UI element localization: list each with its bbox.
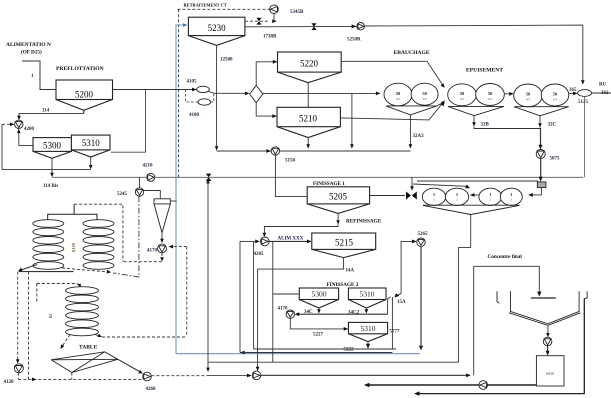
- cell bank ebauchage pair: [384, 83, 438, 106]
- svg-text:ALIM XXX: ALIM XXX: [278, 237, 304, 242]
- svg-text:4210: 4210: [143, 164, 154, 169]
- wire branch drop to finissage feed: [351, 93, 353, 146]
- svg-text:WS: WS: [396, 97, 401, 101]
- svg-text:5250R: 5250R: [347, 38, 361, 43]
- tank 5200: [56, 80, 113, 113]
- wire 5205 underflow to 4205: [264, 225, 338, 235]
- svg-text:5125: 5125: [578, 100, 589, 105]
- pump 5075: [536, 150, 545, 159]
- svg-text:6118: 6118: [71, 242, 76, 252]
- wire bottom black line: [240, 352, 392, 354]
- wire ALIM line into 5215: [269, 240, 309, 242]
- tank 5300 fin2: [299, 288, 338, 308]
- wire square recycle line: [417, 180, 538, 182]
- svg-text:5345R: 5345R: [290, 10, 304, 15]
- svg-text:(OF D15): (OF D15): [21, 49, 42, 56]
- wire dashed into 4120: [17, 272, 19, 362]
- splitter diamond: [250, 86, 263, 103]
- wire 5300 underflow: [51, 158, 53, 174]
- svg-text:50: 50: [422, 91, 427, 96]
- svg-text:WS: WS: [526, 98, 531, 102]
- wire dashed vertical x187: [186, 247, 188, 336]
- wire cells exit to 5125: [569, 92, 575, 94]
- pump 5250R: [357, 23, 365, 31]
- cell bank epuisement pair 1: [448, 84, 505, 106]
- wire 32C down to 5075: [540, 128, 542, 147]
- svg-text:5215: 5215: [335, 238, 354, 248]
- wire 6020 out left: [488, 384, 537, 386]
- wire 5220 underflow into 5210: [307, 83, 309, 108]
- wire 15A to 5265: [397, 241, 413, 296]
- sampler 4100: [198, 99, 211, 105]
- pump 6020 line: [479, 381, 488, 390]
- tank 5220: [278, 52, 342, 83]
- tank 5210: [277, 107, 340, 137]
- wire dashed header to x123: [74, 204, 123, 262]
- wire concentrate to thickener riser: [261, 374, 468, 376]
- wire 5220 overflow to ebauchage: [341, 61, 443, 85]
- wire 5310 drop: [365, 308, 367, 311]
- wire recycle into row from line B: [411, 177, 413, 188]
- wire cyclone underflow: [161, 233, 163, 241]
- svg-text:32B: 32B: [481, 123, 490, 128]
- wire 15A junction riser: [388, 297, 391, 314]
- sampler 4105: [197, 86, 210, 92]
- wire lower 5310 drop: [367, 342, 369, 345]
- spiral bank 3: [66, 287, 99, 336]
- wire spirals header: [48, 214, 97, 222]
- wire dashed enclosure left: [178, 9, 180, 177]
- wire line B into 5245: [139, 177, 141, 188]
- wire 32C drop: [539, 116, 541, 125]
- cyclone: [154, 199, 170, 233]
- cell bank finissage row: [422, 188, 522, 205]
- wire 5310 underflow: [90, 157, 92, 167]
- wire pump to 6020: [547, 346, 549, 353]
- wire 5265 discharge gray: [420, 246, 422, 345]
- svg-text:5777: 5777: [390, 330, 401, 335]
- svg-text:362: 362: [601, 91, 609, 96]
- wire dashed horizontal y262: [124, 261, 162, 263]
- trough ebauchage pair: [386, 103, 443, 115]
- trough epuisement pair 2: [514, 107, 569, 116]
- wire 5150 to 5205: [275, 155, 307, 197]
- trough epuisement pair 1: [448, 106, 504, 115]
- wire bottom return line: [208, 247, 458, 362]
- wire dashed y335: [102, 336, 187, 338]
- wire dashed enclosure top: [177, 8, 269, 10]
- wire feed into 5300: [272, 241, 274, 362]
- svg-text:32C: 32C: [548, 123, 557, 128]
- wire spiral1 underflow arrow: [21, 265, 37, 271]
- svg-text:WS: WS: [460, 97, 465, 101]
- svg-text:34C: 34C: [304, 310, 313, 315]
- svg-text:114: 114: [42, 109, 50, 114]
- svg-text:5300: 5300: [43, 141, 62, 151]
- wire drop from recycle into pair junction: [413, 184, 467, 186]
- svg-text:RETRAITEMENT CT: RETRAITEMENT CT: [184, 3, 227, 8]
- svg-text:4260: 4260: [146, 387, 157, 392]
- wire 5777 drop: [391, 297, 393, 349]
- wire 5205 underflow: [337, 213, 339, 222]
- pump 4210: [147, 173, 155, 181]
- svg-text:WS: WS: [488, 97, 493, 101]
- valve 1738R: [311, 23, 316, 30]
- wire dashed around 4100: [186, 90, 199, 103]
- svg-text:5310: 5310: [361, 324, 376, 333]
- svg-text:4100: 4100: [189, 113, 200, 118]
- svg-text:PREFLOTTATION: PREFLOTTATION: [56, 66, 104, 72]
- tank 5230: [188, 17, 245, 45]
- svg-text:4170: 4170: [278, 307, 289, 312]
- wire 32B drop: [473, 116, 475, 124]
- svg-text:50: 50: [488, 91, 493, 96]
- wire spiral2 to spiral3: [36, 284, 38, 303]
- wire dashdot from 5245 down: [113, 196, 139, 277]
- svg-text:5265: 5265: [418, 232, 429, 237]
- wire 32B collection: [474, 127, 540, 129]
- wire diamond to 5210: [256, 103, 274, 117]
- wire recycle into 4205 from left: [240, 240, 255, 242]
- pump 5345R: [270, 5, 279, 14]
- wire 5230 overflow main: [245, 25, 357, 27]
- svg-text:5245: 5245: [117, 192, 128, 197]
- svg-text:365: 365: [569, 88, 577, 93]
- wire 5205 overflow to cell row: [370, 195, 405, 197]
- wire feed inlet: [22, 61, 56, 90]
- pump 4170 fin2: [286, 310, 294, 318]
- svg-text:5220: 5220: [300, 59, 319, 69]
- svg-text:62: 62: [48, 313, 53, 318]
- wire square to finissage cells: [531, 188, 542, 195]
- svg-text:5210: 5210: [299, 114, 318, 124]
- svg-text:TABLE: TABLE: [79, 345, 98, 351]
- wire arrow between finissage pairs: [473, 194, 479, 196]
- spiral bank 1: [33, 220, 64, 270]
- valve finissage row inlet: [406, 192, 417, 200]
- thickener tank: [497, 291, 587, 325]
- svg-text:5300: 5300: [312, 290, 327, 299]
- svg-text:5200: 5200: [75, 90, 94, 100]
- svg-text:WS: WS: [553, 98, 558, 102]
- wire 5200 underflow 114: [19, 113, 84, 117]
- svg-text:5150: 5150: [285, 159, 296, 164]
- wire 5230 underflow: [216, 45, 218, 148]
- pump 4120: [14, 364, 23, 373]
- junction 5125: [578, 90, 592, 97]
- spiral bank 2: [83, 220, 114, 270]
- tank 5310 fin2: [348, 288, 386, 308]
- svg-text:REFINISSAGE: REFINISSAGE: [346, 219, 382, 225]
- svg-text:50: 50: [553, 92, 558, 97]
- trough finissage row: [423, 204, 520, 206]
- wire pair1 to pair2: [505, 93, 512, 95]
- svg-text:EPUISEMENT: EPUISEMENT: [466, 68, 503, 74]
- tank 5300: [33, 138, 72, 159]
- junction square: [537, 182, 546, 188]
- svg-text:4200: 4200: [24, 127, 35, 132]
- tank 5215: [312, 233, 376, 258]
- svg-text:32A3: 32A3: [413, 134, 425, 139]
- tank 5310: [71, 135, 110, 157]
- wire 5125 down to line B: [584, 96, 586, 177]
- svg-text:ALIMENTATIO N: ALIMENTATIO N: [6, 42, 51, 48]
- svg-text:5227: 5227: [313, 333, 324, 338]
- tank 5310 lower: [348, 322, 387, 341]
- wire thickener feed: [474, 266, 540, 293]
- wire 5210 overflow to cells: [340, 103, 443, 120]
- pump 4200: [15, 120, 23, 128]
- svg-text:50: 50: [460, 91, 465, 96]
- svg-text:4205: 4205: [254, 252, 265, 257]
- wire concentrate riser: [473, 266, 475, 375]
- wire 5300 drop: [318, 308, 320, 311]
- wire 5200 product line: [113, 89, 197, 91]
- wire 5215 underflow: [258, 258, 344, 369]
- svg-text:50: 50: [526, 92, 531, 97]
- wire dashed into 4170 from right: [171, 246, 187, 248]
- wire 4170 to lower 5310: [290, 318, 346, 329]
- svg-text:5075: 5075: [550, 157, 561, 162]
- wire diamond to ebauchage: [263, 92, 378, 94]
- wire RU out: [592, 92, 611, 94]
- svg-text:15A: 15A: [397, 300, 406, 305]
- wire thickener underflow: [547, 326, 549, 335]
- svg-text:1738R: 1738R: [263, 35, 277, 40]
- wire dashed 4120 out: [17, 373, 19, 380]
- svg-text:5310: 5310: [360, 290, 375, 299]
- svg-text:14A: 14A: [346, 269, 355, 274]
- wire finissage row underflow: [458, 215, 470, 248]
- wire branch from product line down to line B: [111, 90, 146, 153]
- svg-text:12500: 12500: [220, 58, 233, 63]
- wire 5300 overflow to 4200: [19, 131, 33, 145]
- svg-text:RU: RU: [599, 83, 607, 88]
- svg-text:EBAUCHAGE: EBAUCHAGE: [394, 50, 430, 56]
- wire spiral3 to table dashed: [62, 335, 70, 347]
- wire refinissage recycle vertical: [253, 241, 255, 349]
- pump thickener: [543, 337, 552, 346]
- wire lower collection: [254, 348, 396, 350]
- wire middlings riser: [207, 182, 209, 372]
- wire finissage feed line: [217, 150, 411, 152]
- valve on line B: [206, 174, 212, 181]
- pump 4205: [255, 240, 260, 244]
- wire tailings line B: [52, 176, 583, 178]
- wire dashed 4260 to pump: [151, 375, 207, 377]
- svg-text:5230: 5230: [208, 23, 227, 33]
- tank 6020: [536, 356, 564, 386]
- svg-text:114 Bis: 114 Bis: [43, 184, 58, 189]
- wire blue recycle line: [176, 25, 184, 354]
- svg-text:Concentre final: Concentre final: [488, 254, 523, 260]
- svg-text:5205: 5205: [329, 192, 348, 202]
- wire 34C collection to 4170: [297, 313, 388, 315]
- thickener feedwell: [531, 297, 556, 299]
- wire spiral3 right dashed: [95, 335, 100, 337]
- table shape: [51, 352, 118, 373]
- wire 4170 down dashed: [161, 253, 163, 259]
- svg-text:FINISSAGE 1: FINISSAGE 1: [313, 181, 345, 187]
- wire cyclone overflow to blue: [170, 200, 176, 202]
- svg-text:5222: 5222: [344, 348, 355, 353]
- svg-text:4170: 4170: [147, 249, 158, 254]
- svg-text:6020: 6020: [546, 371, 554, 376]
- svg-text:4120: 4120: [4, 380, 15, 385]
- pump 5150: [266, 149, 271, 153]
- svg-text:50: 50: [396, 91, 401, 96]
- svg-text:4105: 4105: [187, 79, 198, 84]
- wire dashed x28: [28, 272, 30, 380]
- tank 5205: [307, 187, 369, 214]
- pump concentrate transfer: [252, 371, 261, 380]
- cell bank epuisement pair 2: [514, 84, 569, 107]
- wire recycle riser to 4205: [239, 241, 241, 352]
- wire 5245 to cyclone: [144, 191, 161, 199]
- wire diamond to 5220: [256, 62, 275, 86]
- wire 5210 underflow drop: [307, 138, 309, 147]
- wire left vertical from 4200: [2, 124, 91, 169]
- wire dashed bypass with valve: [245, 20, 270, 22]
- svg-text:34C2: 34C2: [348, 311, 360, 316]
- wire table to 4260: [118, 359, 141, 372]
- wire thickener overflow down: [417, 299, 584, 394]
- wire dashed into 4200 from left: [2, 123, 12, 125]
- wire 4105 to diamond: [209, 92, 247, 94]
- wire dashed spiral mid arrow: [62, 268, 109, 272]
- svg-text:WS: WS: [422, 97, 427, 101]
- wire 5075 to square: [540, 159, 542, 180]
- svg-text:FINISSAGE 2: FINISSAGE 2: [327, 282, 359, 288]
- wire ebauchage trough underflow 32A3: [409, 115, 411, 146]
- pump 4260: [143, 372, 152, 381]
- svg-text:5310: 5310: [82, 138, 101, 148]
